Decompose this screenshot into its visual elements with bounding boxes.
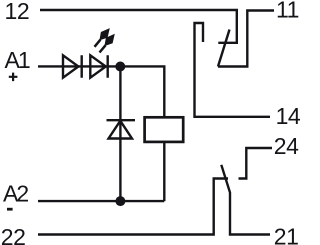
LED diode D2: [90, 55, 107, 77]
wire 21 common with blade bottom: [221, 165, 270, 235]
switch blade top contact: [218, 30, 230, 67]
wire 22 to NC contact of bottom changeover: [38, 179, 228, 235]
LED arrow 1: [95, 28, 110, 47]
wire 24 NO contact stub: [239, 148, 273, 179]
svg-text:11: 11: [276, 0, 299, 23]
wire 11 common with pivot bar: [218, 11, 274, 67]
svg-text:12: 12: [5, 0, 30, 24]
wire coil bottom to A2: [163, 143, 165, 201]
wire 14 NO contact hook: [195, 23, 271, 117]
freewheeling diode D3: [107, 120, 136, 138]
wire freewheel branch vertical: [119, 67, 121, 202]
wire 12 to NC contact of top changeover: [40, 10, 237, 43]
minus sign: [7, 208, 13, 211]
svg-text:A1: A1: [5, 47, 30, 73]
wire A1 line to coil: [38, 66, 164, 116]
svg-text:21: 21: [274, 223, 299, 245]
relay coil K1: [145, 117, 184, 142]
LED arrow 2: [100, 34, 115, 53]
svg-text:A2: A2: [3, 181, 28, 207]
svg-text:14: 14: [276, 103, 300, 129]
wire A2 line: [38, 200, 164, 202]
svg-text:24: 24: [274, 133, 299, 159]
node junction bottom: [115, 196, 125, 206]
svg-text:22: 22: [1, 224, 26, 245]
plus sign: [9, 73, 18, 82]
diode D1: [63, 55, 82, 77]
node junction top: [115, 62, 125, 72]
